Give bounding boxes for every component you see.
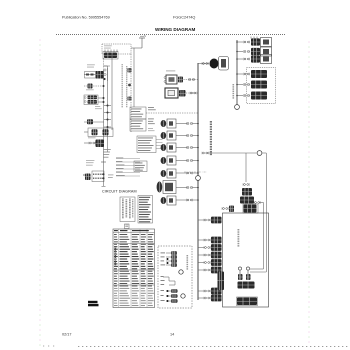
wire xyxy=(245,153,247,182)
wire xyxy=(176,172,198,174)
wire (dashed) xyxy=(186,92,198,94)
wire xyxy=(250,153,266,272)
oven igniter xyxy=(161,156,176,165)
tiny label text xyxy=(86,89,94,92)
splice dot xyxy=(103,85,105,87)
marks on dotted riser xyxy=(128,68,132,101)
ignition switch assembly xyxy=(240,197,254,204)
wire xyxy=(198,247,204,249)
board relay bank K2 xyxy=(237,297,258,306)
vertical WIRING DIAGRAM label xyxy=(210,121,212,155)
surface light switch xyxy=(165,88,186,98)
splice dot xyxy=(197,199,199,201)
oven ignition sensor xyxy=(242,188,252,196)
wire xyxy=(84,121,104,123)
header WIRING DIAGRAM title xyxy=(155,27,195,32)
connector pair xyxy=(244,58,250,61)
splice dot xyxy=(104,119,111,121)
tiny label text xyxy=(86,160,94,166)
inline component xyxy=(87,119,93,124)
node terminal circle xyxy=(257,151,262,156)
splice dot xyxy=(104,112,111,114)
wire xyxy=(198,262,204,264)
svg-text:Publication No. 5995554769: Publication No. 5995554769 xyxy=(62,16,110,20)
board connector J7 xyxy=(211,288,222,295)
legend step wires xyxy=(161,276,176,285)
surface igniter LR xyxy=(161,143,176,152)
connector pair xyxy=(204,254,210,257)
legend dashed box xyxy=(158,246,192,308)
oven valve component xyxy=(96,140,105,148)
wire xyxy=(84,74,96,76)
splice dot xyxy=(236,51,238,53)
footer page number 14 xyxy=(170,333,174,337)
connector pair xyxy=(187,172,193,175)
splice dot xyxy=(197,160,199,162)
connector pair xyxy=(244,41,250,44)
wire xyxy=(111,54,113,130)
spark electrode symbol xyxy=(246,267,251,280)
bus junction node xyxy=(196,176,201,181)
splice dot xyxy=(197,147,199,149)
wire (dashed) xyxy=(146,112,198,114)
connector pair xyxy=(89,142,95,145)
oven light assembly xyxy=(164,71,183,85)
terminal ticks above valves xyxy=(251,37,257,39)
wire xyxy=(176,160,198,162)
inline component xyxy=(88,84,93,89)
connector pair xyxy=(244,94,250,97)
wire xyxy=(207,152,257,154)
table labels xyxy=(148,107,156,124)
wire xyxy=(237,58,243,60)
tiny label text xyxy=(95,106,102,109)
vertical board label xyxy=(238,229,240,247)
svg-text:WIRING DIAGRAM: WIRING DIAGRAM xyxy=(155,27,195,32)
wire (dashed) xyxy=(184,79,199,81)
legend symbol rows 2 xyxy=(161,289,179,303)
connector pair xyxy=(187,186,193,189)
connector pair xyxy=(244,83,250,86)
connector pair xyxy=(187,146,193,149)
svg-text:CIRCUIT DIAGRAM: CIRCUIT DIAGRAM xyxy=(102,190,137,194)
wire (dashed) xyxy=(84,85,104,87)
board connector J4 xyxy=(211,252,222,259)
burner igniter switch S4 xyxy=(251,70,267,78)
connector pair xyxy=(244,50,250,53)
wire xyxy=(198,269,204,271)
node terminal circle xyxy=(235,105,240,110)
connector pair xyxy=(187,199,193,202)
main harness bus wire xyxy=(197,63,199,300)
connector pair xyxy=(187,122,193,125)
wire xyxy=(133,48,135,107)
legend lamp symbol 2 xyxy=(181,294,185,298)
burner valve V1 xyxy=(251,38,272,47)
burner igniter switch S6 xyxy=(251,92,267,100)
surface burner switch SW2 xyxy=(88,128,113,137)
wire code mini table xyxy=(138,196,153,224)
splice dot xyxy=(236,41,238,43)
connector pair xyxy=(204,239,210,242)
CIRCUIT DIAGRAM caption xyxy=(102,190,137,194)
part number block xyxy=(88,301,99,307)
surface igniter LF xyxy=(161,119,176,128)
board connector J3 xyxy=(211,244,222,251)
header rule (dotted) xyxy=(56,34,286,36)
table connector symbol xyxy=(125,224,130,229)
wire color code table xyxy=(113,229,155,308)
connector pair xyxy=(187,159,193,162)
small table xyxy=(134,161,147,172)
legend vertical label xyxy=(187,255,189,270)
splice dot xyxy=(197,187,199,189)
wire xyxy=(237,73,243,75)
wire xyxy=(250,203,264,270)
switch table block 1 xyxy=(130,107,146,119)
splice dot xyxy=(104,105,111,107)
infinite switch table xyxy=(137,136,163,153)
burner igniter switch S5 xyxy=(251,81,267,89)
vertical label text column xyxy=(122,64,123,107)
splice dot xyxy=(197,123,199,125)
board relay bank K1 xyxy=(238,282,255,289)
splice dot xyxy=(236,84,238,86)
wire xyxy=(176,187,198,189)
connector pair xyxy=(254,201,260,204)
spark electrode symbol xyxy=(238,267,243,280)
wire xyxy=(176,199,198,201)
tiny label text xyxy=(148,128,155,131)
splice dot xyxy=(197,172,199,174)
switch table block 2 xyxy=(130,119,146,131)
tiny label text xyxy=(87,65,95,68)
footer date code 02/17 xyxy=(62,333,72,337)
connector pair xyxy=(204,261,210,264)
electronic oven control board outline xyxy=(223,213,269,307)
wire xyxy=(198,239,204,241)
wire tick xyxy=(101,162,106,187)
terminal block TB1 xyxy=(83,171,113,182)
svg-text:14: 14 xyxy=(170,333,174,337)
wire xyxy=(176,123,198,125)
svg-text:02/17: 02/17 xyxy=(62,333,72,337)
tiny vertical label xyxy=(233,84,235,99)
notes box (vertical text) xyxy=(120,197,135,222)
label text rows with leaders xyxy=(116,158,140,177)
connector pair xyxy=(202,152,208,155)
splice dot xyxy=(197,135,199,137)
connector pair xyxy=(204,246,210,249)
legend lamp symbol xyxy=(179,270,183,274)
wire xyxy=(237,41,243,43)
splice dot xyxy=(104,126,111,128)
oven door lock motor xyxy=(157,181,176,194)
header publication number text xyxy=(62,16,110,20)
svg-text:N: N xyxy=(144,34,146,38)
connector pair xyxy=(204,290,210,293)
connector pair xyxy=(190,92,196,95)
wire (dash-dot) xyxy=(184,171,207,173)
wire xyxy=(198,290,204,292)
wire xyxy=(84,142,89,144)
connector pair xyxy=(204,297,210,300)
right bus wire xyxy=(236,40,238,105)
board top connector P2 xyxy=(243,204,258,213)
wire xyxy=(176,135,198,137)
wire (dashed) xyxy=(130,54,132,133)
wire xyxy=(237,51,243,53)
board edge connector strip xyxy=(218,272,225,291)
vertical label text column xyxy=(126,66,127,107)
board connector J8 xyxy=(211,295,222,302)
board connector J6 xyxy=(211,267,222,274)
connector pair xyxy=(189,78,195,81)
burner valve V2 xyxy=(251,47,272,56)
oven lamp L2 xyxy=(210,57,229,71)
wire xyxy=(104,66,108,152)
wire xyxy=(131,47,142,49)
wire xyxy=(198,219,204,221)
board connector J5 xyxy=(211,259,222,266)
wire xyxy=(84,131,88,133)
splice dot xyxy=(236,58,238,60)
ground terminal L1 xyxy=(139,34,146,48)
spark module dashed enclosure xyxy=(102,44,131,54)
burner valve V3 xyxy=(251,55,272,64)
splice dot xyxy=(236,95,238,97)
pressure regulator PR1 xyxy=(84,95,98,105)
connector pair xyxy=(204,219,210,222)
legend symbol rows xyxy=(161,251,178,267)
wire (dotted) xyxy=(103,58,105,70)
wire xyxy=(98,98,104,102)
tiny label text xyxy=(88,137,96,140)
wire xyxy=(198,297,204,299)
connector pair xyxy=(243,183,249,186)
surface igniter RR xyxy=(161,131,176,140)
tiny label text xyxy=(104,46,112,49)
svg-text:FGGC2474Q: FGGC2474Q xyxy=(173,16,195,20)
wire xyxy=(103,70,105,186)
connector pair xyxy=(187,134,193,137)
convection fan motor xyxy=(161,196,176,205)
wire xyxy=(176,147,198,149)
connector pair xyxy=(244,73,250,76)
surface switch bar SW1 xyxy=(85,71,104,79)
connector pair xyxy=(204,269,210,272)
wire xyxy=(237,84,243,86)
dashed enclosure (igniter switch group) xyxy=(247,68,276,104)
wire xyxy=(198,63,209,65)
connector pair xyxy=(202,62,208,65)
board top connector P1 xyxy=(222,206,234,213)
spark module SP1 xyxy=(103,52,118,60)
splice dot xyxy=(236,73,238,75)
splice dot xyxy=(103,97,105,103)
header model number text xyxy=(173,16,195,20)
wire xyxy=(237,95,243,97)
spark module terminal ticks xyxy=(105,50,117,53)
board connector J2 xyxy=(211,237,222,244)
broil igniter xyxy=(161,169,176,178)
board connector J1 xyxy=(211,217,222,224)
valve stem element xyxy=(103,66,110,81)
tiny label text xyxy=(103,149,111,158)
wire xyxy=(198,254,204,256)
